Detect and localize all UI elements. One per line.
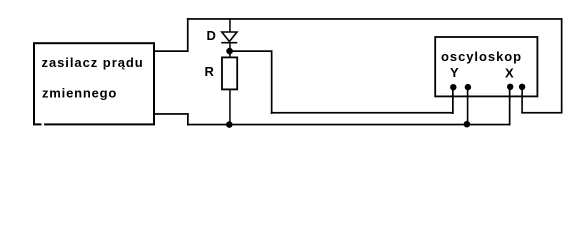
wire: cathode to resistor lead [229,43,231,58]
gap in supply box bottom edge [42,123,45,126]
wire: dot3 stem [509,87,511,125]
wire: diode anode lead [229,18,231,32]
wire: bottom horizontal [187,124,510,126]
svg-text:R: R [205,64,215,79]
oscilloscope box [435,37,537,96]
wire: junction to Y riser [230,50,273,52]
node: resistor bottom junction dot [226,121,233,128]
AC supply box (zasilacz) [34,43,154,124]
svg-text:D: D [207,28,216,43]
terminal dot 4 (X right) [519,84,525,90]
wire: top horizontal [187,18,563,20]
terminal dot 2 (Y right) [465,84,471,90]
svg-text:oscyloskop: oscyloskop [441,49,522,64]
wire: Y horizontal [271,112,454,114]
wire: dot4 horizontal [521,112,562,114]
wire: Y riser down [271,50,273,114]
diode D triangle [222,32,237,42]
resistor R body [222,57,237,89]
wire: supply top to riser [155,50,189,52]
wire: resistor bottom lead [229,90,231,125]
wire: step down [187,113,189,125]
svg-text:zmiennego: zmiennego [42,86,117,101]
node: diode-resistor junction dot [226,48,233,55]
svg-text:Y: Y [450,65,459,80]
wire: dot2 stem [467,87,469,125]
svg-text:zasilacz prądu: zasilacz prądu [42,55,144,70]
diode cathode bar [221,42,237,44]
wire: dot1 stem [452,87,454,114]
node: dot2 bottom junction dot [464,121,471,128]
terminal dot 3 (X left) [507,84,513,90]
wire: dot4 stem [521,87,523,113]
wire: left riser up [187,18,189,52]
wire: right edge down [561,18,563,113]
wire: supply bottom horizontal [155,113,189,115]
svg-text:X: X [505,65,514,80]
terminal dot 1 (Y left) [450,84,456,90]
